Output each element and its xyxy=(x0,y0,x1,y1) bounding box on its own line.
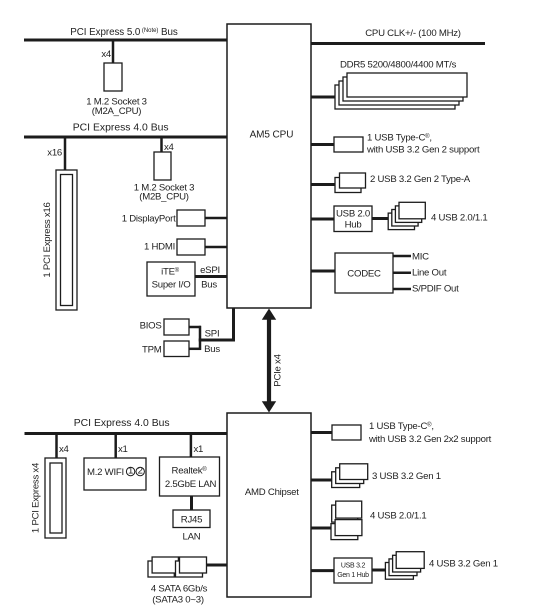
svg-text:1 PCI Express x4: 1 PCI Express x4 xyxy=(31,462,42,533)
svg-text:CPU CLK+/- (100 MHz): CPU CLK+/- (100 MHz) xyxy=(365,28,461,39)
svg-text:1: 1 xyxy=(128,466,133,477)
svg-text:RJ45: RJ45 xyxy=(181,515,202,526)
svg-text:Super I/O: Super I/O xyxy=(152,280,191,291)
svg-text:LAN: LAN xyxy=(183,532,201,543)
svg-text:Bus: Bus xyxy=(204,344,220,355)
svg-text:2: 2 xyxy=(138,466,143,477)
svg-text:4 USB 2.0/1.1: 4 USB 2.0/1.1 xyxy=(431,213,487,224)
svg-text:4 SATA 6Gb/s: 4 SATA 6Gb/s xyxy=(151,584,208,595)
svg-text:2 USB 3.2 Gen 2 Type-A: 2 USB 3.2 Gen 2 Type-A xyxy=(370,174,471,185)
svg-text:S/PDIF Out: S/PDIF Out xyxy=(412,283,459,294)
svg-text:M.2 WIFI: M.2 WIFI xyxy=(87,467,124,478)
svg-text:Hub: Hub xyxy=(345,220,362,231)
svg-text:x4: x4 xyxy=(59,444,70,455)
svg-text:CODEC: CODEC xyxy=(347,269,381,280)
svg-text:PCI Express 5.0 (Note) Bus: PCI Express 5.0 (Note) Bus xyxy=(70,27,178,38)
svg-text:x1: x1 xyxy=(194,444,204,455)
svg-text:x4: x4 xyxy=(101,49,112,60)
svg-text:(M2A_CPU): (M2A_CPU) xyxy=(92,106,142,117)
svg-text:PCI Express 4.0 Bus: PCI Express 4.0 Bus xyxy=(73,123,169,134)
svg-text:Gen 1 Hub: Gen 1 Hub xyxy=(337,572,369,579)
svg-text:with USB 3.2 Gen 2x2 support: with USB 3.2 Gen 2x2 support xyxy=(368,434,492,445)
svg-text:eSPI: eSPI xyxy=(200,265,220,276)
svg-text:PCIe x4: PCIe x4 xyxy=(273,353,284,386)
svg-text:PCI Express 4.0 Bus: PCI Express 4.0 Bus xyxy=(74,418,170,429)
svg-text:DDR5 5200/4800/4400 MT/s: DDR5 5200/4800/4400 MT/s xyxy=(340,60,457,71)
svg-text:AM5 CPU: AM5 CPU xyxy=(250,130,294,141)
svg-text:2.5GbE LAN: 2.5GbE LAN xyxy=(165,479,217,490)
svg-text:(M2B_CPU): (M2B_CPU) xyxy=(139,192,189,203)
svg-text:x16: x16 xyxy=(47,148,62,159)
svg-text:with USB 3.2 Gen 2 support: with USB 3.2 Gen 2 support xyxy=(366,144,480,155)
svg-text:Realtek®: Realtek® xyxy=(172,466,208,477)
svg-text:USB 3.2: USB 3.2 xyxy=(341,563,366,570)
svg-text:x1: x1 xyxy=(118,444,128,455)
svg-text:SPI: SPI xyxy=(205,329,220,340)
svg-text:1 HDMI: 1 HDMI xyxy=(144,242,175,253)
svg-text:(SATA3 0~3): (SATA3 0~3) xyxy=(152,595,204,606)
svg-text:Line Out: Line Out xyxy=(412,267,447,278)
svg-text:MIC: MIC xyxy=(412,251,429,262)
svg-text:TPM: TPM xyxy=(142,344,162,355)
svg-text:1 DisplayPort: 1 DisplayPort xyxy=(122,214,176,225)
svg-text:Bus: Bus xyxy=(201,280,217,291)
svg-text:1 USB Type-C®,: 1 USB Type-C®, xyxy=(369,421,434,432)
svg-text:4 USB 3.2 Gen 1: 4 USB 3.2 Gen 1 xyxy=(429,559,498,570)
svg-text:3 USB 3.2 Gen 1: 3 USB 3.2 Gen 1 xyxy=(372,471,441,482)
svg-text:1 USB Type-C®,: 1 USB Type-C®, xyxy=(367,133,432,144)
svg-text:BIOS: BIOS xyxy=(140,321,162,332)
svg-text:USB 2.0: USB 2.0 xyxy=(336,209,370,220)
svg-text:1 PCI Express x16: 1 PCI Express x16 xyxy=(42,202,53,277)
svg-text:4 USB 2.0/1.1: 4 USB 2.0/1.1 xyxy=(370,511,426,522)
svg-text:AMD Chipset: AMD Chipset xyxy=(245,487,299,498)
